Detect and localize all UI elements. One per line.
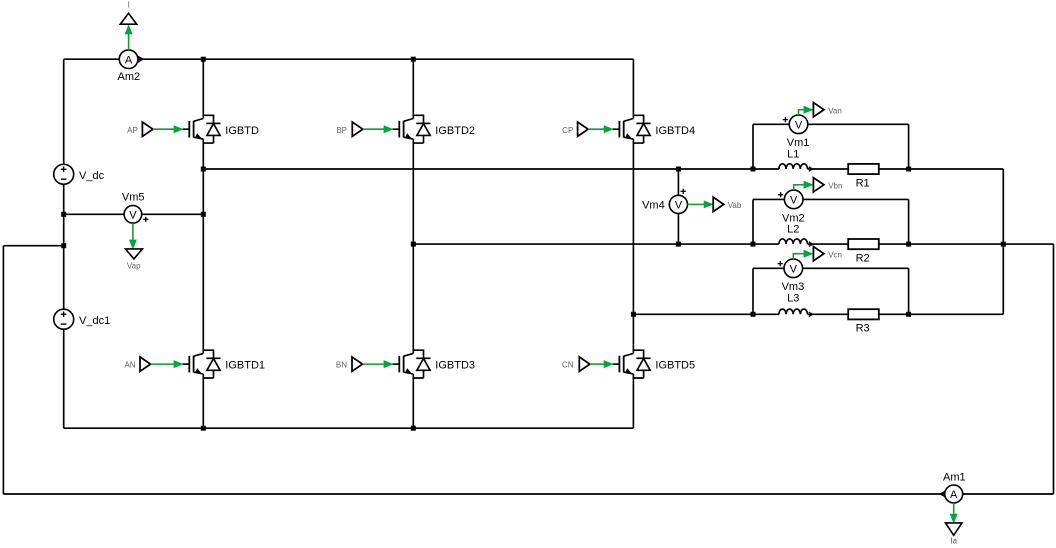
svg-text:V: V	[795, 120, 803, 132]
svg-text:BP: BP	[336, 126, 347, 135]
svg-text:IGBTD1: IGBTD1	[225, 360, 265, 372]
svg-text:AN: AN	[124, 361, 135, 370]
svg-text:AP: AP	[127, 126, 138, 135]
svg-text:R3: R3	[856, 323, 870, 335]
svg-text:V: V	[675, 200, 683, 212]
svg-text:IGBTD: IGBTD	[225, 125, 259, 137]
svg-text:Vm1: Vm1	[787, 137, 810, 149]
svg-text:IGBTD4: IGBTD4	[655, 125, 695, 137]
svg-text:V: V	[790, 195, 798, 207]
svg-text:Vm3: Vm3	[782, 281, 805, 293]
svg-text:V_dc: V_dc	[79, 170, 105, 182]
svg-text:IGBTD5: IGBTD5	[655, 360, 695, 372]
svg-text:V: V	[129, 210, 137, 222]
svg-text:Vcn: Vcn	[828, 250, 842, 259]
svg-text:L2: L2	[787, 224, 799, 236]
svg-text:Ia: Ia	[950, 537, 957, 546]
svg-text:IGBTD2: IGBTD2	[435, 125, 475, 137]
svg-text:Van: Van	[828, 106, 842, 115]
svg-text:Am2: Am2	[117, 71, 140, 83]
svg-text:V_dc1: V_dc1	[79, 315, 110, 327]
svg-text:L1: L1	[787, 149, 799, 161]
svg-text:L3: L3	[787, 293, 799, 305]
svg-text:Vab: Vab	[728, 201, 742, 210]
svg-text:Am1: Am1	[943, 472, 966, 484]
svg-text:IGBTD3: IGBTD3	[435, 360, 475, 372]
svg-text:Vap: Vap	[127, 261, 141, 270]
svg-text:CP: CP	[562, 126, 573, 135]
svg-text:Vm4: Vm4	[642, 200, 665, 212]
svg-text:A: A	[950, 489, 958, 501]
svg-text:R1: R1	[856, 177, 870, 189]
svg-text:R2: R2	[856, 252, 870, 264]
svg-text:BN: BN	[336, 361, 347, 370]
svg-text:Vm5: Vm5	[122, 192, 145, 204]
svg-text:Vm2: Vm2	[782, 212, 805, 224]
svg-text:Vbn: Vbn	[828, 181, 842, 190]
svg-text:V: V	[790, 264, 798, 276]
svg-text:CN: CN	[562, 361, 574, 370]
svg-text:A: A	[125, 54, 133, 66]
svg-text:I: I	[128, 1, 130, 10]
